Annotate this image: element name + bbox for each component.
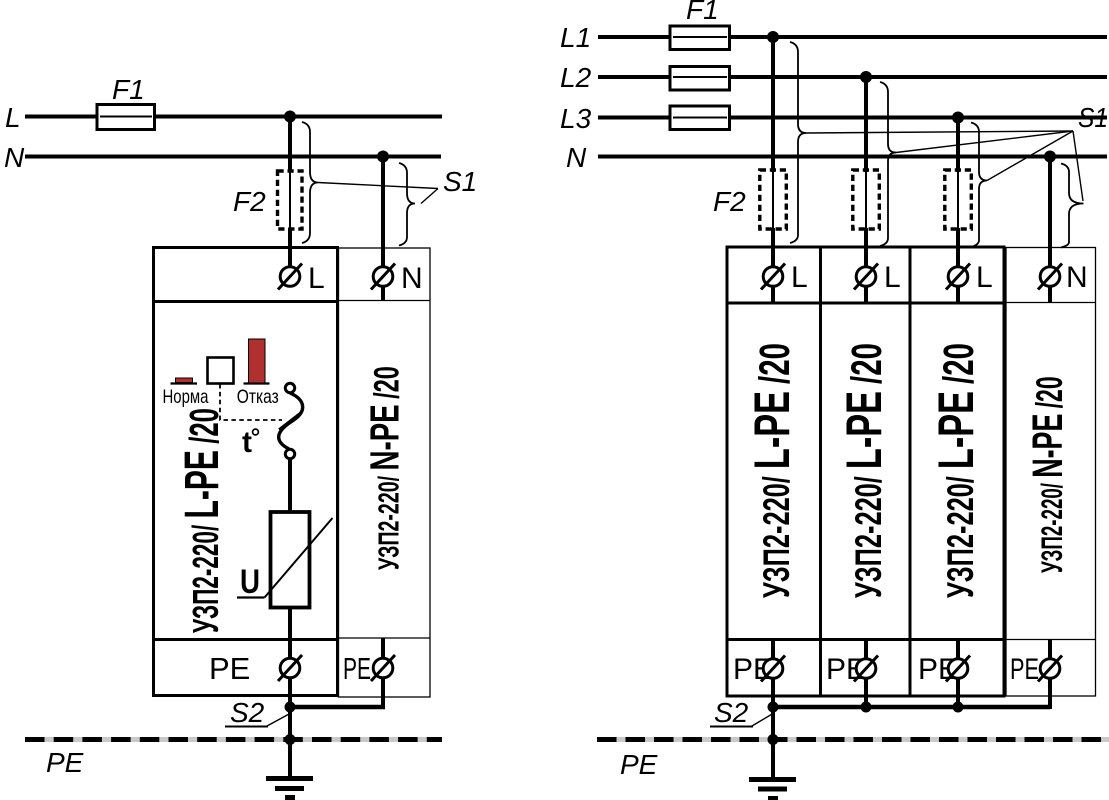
module U1 PE divider: [154, 638, 338, 641]
node N junction: [377, 151, 389, 163]
terminal PE U1: [278, 655, 302, 681]
svg-text:L3: L3: [560, 103, 592, 134]
fuse F1: [97, 105, 155, 130]
fuse F2-2 dashed: [853, 170, 880, 229]
wire U1 PE drop to ground: [288, 678, 292, 776]
svg-text:F2: F2: [713, 186, 746, 217]
terminal PE U2: [371, 655, 395, 681]
terminal PE m2: [854, 656, 878, 682]
PE bus left: [25, 737, 442, 742]
brace right-1: [790, 42, 806, 243]
terminal PE m4: [1038, 656, 1062, 682]
wire PE m1 drop to ground: [771, 678, 775, 777]
svg-text:L: L: [791, 261, 808, 294]
m4 PE divider: [1006, 639, 1096, 641]
svg-text:U: U: [240, 563, 260, 601]
PE stub m3: [956, 639, 960, 659]
fuse F1-1: [670, 26, 730, 50]
node PE bus: [285, 734, 296, 745]
terminal N circle: [371, 264, 395, 290]
node PE m3: [953, 702, 964, 713]
svg-text:L: L: [5, 102, 21, 133]
separator m1/m2: [819, 247, 822, 696]
brace S1 left-b: [399, 163, 415, 246]
fuse F1-2: [670, 67, 730, 91]
wire N line: [25, 155, 441, 159]
svg-text:PE: PE: [46, 747, 84, 778]
wire drop 2: [864, 74, 868, 302]
svg-text:t: t: [242, 426, 252, 459]
wire L drop: [288, 114, 292, 266]
node L3: [952, 112, 964, 124]
terminal m4 N: [1038, 264, 1062, 290]
svg-text:F2: F2: [233, 186, 266, 217]
PE stub m4: [1048, 639, 1052, 659]
svg-text:N: N: [566, 142, 587, 173]
node L1: [767, 31, 779, 43]
module U2 box N-PE: [339, 248, 431, 697]
wire U2 PE stub: [381, 638, 385, 658]
wire drop N: [1048, 153, 1052, 302]
wire switch to varistor: [288, 460, 292, 514]
ground right: [749, 780, 796, 799]
indicator dashed pointer: [220, 384, 282, 420]
wire drop 3: [956, 114, 960, 302]
wire L2 line: [598, 75, 1107, 79]
svg-text:N: N: [1066, 261, 1088, 294]
node PE m1: [768, 702, 779, 713]
wire PE m3 drop: [956, 678, 960, 707]
svg-text:PE: PE: [343, 651, 371, 686]
node PE join: [285, 702, 296, 713]
fuse F2-1 dashed: [760, 170, 787, 229]
wire U2 PE drop: [290, 678, 385, 707]
terminal PE m3: [946, 656, 970, 682]
svg-text:L2: L2: [560, 62, 592, 93]
svg-text:Норма: Норма: [163, 386, 209, 408]
module m4 box N-PE: [1006, 248, 1096, 697]
svg-text:S2: S2: [230, 697, 265, 728]
svg-text:PE: PE: [1010, 653, 1039, 686]
wire PE m4 drop: [771, 678, 1050, 709]
svg-text:S1: S1: [443, 166, 477, 197]
node N right: [1044, 151, 1056, 163]
terminal m3 L: [946, 264, 970, 290]
svg-text:F1: F1: [686, 0, 719, 25]
svg-text:Отказ: Отказ: [237, 386, 279, 408]
brace right-4: [1061, 164, 1084, 248]
terminal L circle: [278, 264, 302, 290]
indicator Norma bar: [171, 378, 198, 384]
svg-text:S1: S1: [1078, 102, 1108, 133]
varistor RU1: [237, 512, 333, 608]
brace right-3: [971, 123, 987, 248]
svg-text:PE: PE: [620, 749, 658, 780]
svg-text:N: N: [401, 262, 423, 295]
terminal divider right: [727, 302, 1004, 305]
wire N line right: [598, 155, 1107, 159]
S1 pointer lines right: [806, 131, 1083, 201]
svg-text:N: N: [4, 142, 25, 173]
wire drop 1: [771, 34, 775, 302]
svg-text:L: L: [308, 262, 325, 295]
module U1 box L-PE: [154, 248, 338, 696]
terminal PE m1: [761, 656, 785, 682]
node L junction: [284, 111, 296, 123]
PE stub m2: [864, 639, 868, 659]
module U2 PE divider: [339, 637, 431, 639]
svg-text:L1: L1: [560, 22, 591, 53]
modules box right 1-3: [727, 247, 1004, 696]
svg-text:L: L: [976, 261, 993, 294]
ground left: [266, 779, 313, 798]
svg-text:F1: F1: [112, 74, 145, 105]
m4 terminal divider: [1006, 302, 1096, 304]
svg-text:PE: PE: [209, 651, 250, 686]
wire L line: [25, 115, 442, 119]
S1 pointer lines: [318, 183, 438, 204]
node L2: [860, 71, 872, 83]
PE divider right: [727, 638, 1004, 641]
PE bus right: [597, 737, 1109, 742]
brace S1 left-a: [302, 122, 318, 243]
fuse F2-3 dashed: [945, 170, 972, 229]
separator m2/m3: [909, 247, 912, 696]
label S2: [225, 697, 290, 728]
svg-text:L: L: [884, 261, 901, 294]
brace right-2: [880, 82, 896, 246]
label S2 right: [710, 697, 773, 728]
indicator window square: [208, 358, 234, 384]
indicator Otkaz bar: [244, 339, 270, 384]
wire L3 line: [598, 116, 1107, 120]
PE stub m1: [771, 639, 775, 659]
terminal m2 L: [854, 264, 878, 290]
wire L1 line: [598, 35, 1107, 39]
svg-text:S2: S2: [714, 697, 749, 728]
node PE bus right: [768, 734, 779, 745]
wire PE m2 drop: [864, 678, 868, 707]
thermal switch: [279, 383, 303, 458]
wire N drop: [381, 154, 385, 301]
module U2 terminal divider: [339, 300, 431, 302]
terminal m1 L: [761, 264, 785, 290]
fuse F1-3: [670, 106, 730, 130]
module U1 terminal divider: [154, 300, 338, 303]
fuse F2 dashed: [278, 171, 303, 229]
wire varistor to PE: [288, 606, 292, 658]
node PE m2: [861, 702, 872, 713]
